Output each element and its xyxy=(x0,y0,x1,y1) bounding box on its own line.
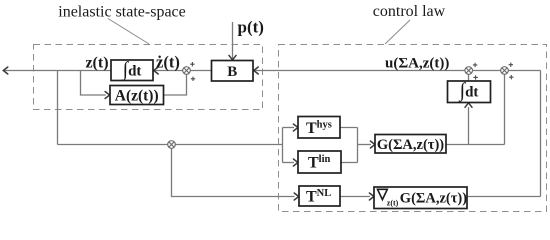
svg-text:B: B xyxy=(227,64,237,80)
arrowhead: into TNL xyxy=(294,193,299,200)
arrowhead: up into integrator (right) xyxy=(465,103,472,108)
plus signs at S3 xyxy=(509,63,513,67)
pickoff junction (lower rail) xyxy=(168,141,176,149)
block integrator (right) xyxy=(448,81,491,103)
dashed box: inelastic state-space xyxy=(34,45,263,110)
plus signs at S2 xyxy=(473,63,477,67)
svg-text:control law: control law xyxy=(373,3,446,20)
wire: Tlin output xyxy=(341,162,358,164)
wire: split vertical for Thys/Tlin xyxy=(282,128,284,163)
wire: up to summing junction S3 xyxy=(504,74,506,144)
arrowhead: into integrator xyxy=(154,67,159,74)
block B xyxy=(212,61,254,82)
wire: branch up into integrator (right) xyxy=(468,107,470,145)
wire: S1 to integrator xyxy=(154,70,183,72)
wire: B output to summing junction S1 xyxy=(190,70,211,72)
wire: p(t) arrow into B xyxy=(232,22,234,60)
arrowhead: into Thys xyxy=(293,124,298,131)
block A(z(t)) xyxy=(110,86,164,105)
arrowhead: into gradient block xyxy=(369,193,374,200)
arrowhead: into B xyxy=(254,67,259,74)
summing junction S2 (control law left) xyxy=(465,67,473,75)
leader line to inelastic box xyxy=(108,19,149,45)
arrowhead: output left xyxy=(3,67,8,74)
wire: feed into Tlin xyxy=(283,162,295,164)
summing junction S1 (state-space) xyxy=(183,67,191,75)
arrowhead: into G xyxy=(370,141,375,148)
wire: join vertical xyxy=(357,128,359,163)
block integrator (left) xyxy=(111,60,153,81)
dashed box: control law xyxy=(279,45,547,212)
svg-text:p(t): p(t) xyxy=(238,18,264,37)
wire: integrator (right) output up to S2 xyxy=(468,74,470,81)
wire: branch down to A(z(t)) xyxy=(81,71,106,96)
leader line to control law box xyxy=(385,20,410,44)
svg-text:ż(t): ż(t) xyxy=(156,53,180,72)
nabla symbol xyxy=(378,189,388,199)
wire: output rail left (z(t) out) xyxy=(4,70,112,72)
wire: main vertical feedback xyxy=(57,71,59,145)
wire: gradient block output xyxy=(467,196,541,198)
wire: feed into Thys xyxy=(283,127,295,129)
block TNL xyxy=(299,186,340,206)
block gradient xyxy=(374,187,467,209)
svg-text:G(ΣA,z(τ)): G(ΣA,z(τ)) xyxy=(377,137,444,153)
svg-text:inelastic state-space: inelastic state-space xyxy=(58,4,186,21)
svg-text:z(t): z(t) xyxy=(85,55,108,72)
wire: TNL output into gradient block xyxy=(340,196,370,198)
plus signs at S1 xyxy=(190,62,194,66)
block Tlin xyxy=(298,151,341,173)
wire: A(z(t)) output up to S1 xyxy=(164,74,187,95)
wire: pickoff down to TNL xyxy=(172,148,295,196)
block Thys xyxy=(298,117,340,139)
wire: G output rail xyxy=(446,144,505,146)
arrowhead: p(t) into B xyxy=(229,55,236,60)
svg-text:G(ΣA,z(τ)): G(ΣA,z(τ)) xyxy=(400,191,467,207)
wire: lower rail to control law xyxy=(58,144,283,146)
svg-text:u(ΣA,z(t)): u(ΣA,z(t)) xyxy=(385,56,449,72)
arrowhead: into Tlin xyxy=(293,159,298,166)
wire: feed into G xyxy=(358,144,372,146)
block G xyxy=(375,135,446,154)
arrowhead: into A(z(t)) xyxy=(105,92,110,99)
summing junction S3 (control law right) xyxy=(501,67,509,75)
wire: right vertical up to u rail xyxy=(540,71,542,197)
svg-text:z(t): z(t) xyxy=(387,199,399,208)
wire: u rail from right edge to B xyxy=(254,70,541,72)
wire: Thys output xyxy=(340,127,358,129)
svg-text:A(z(t)): A(z(t)) xyxy=(115,87,159,104)
